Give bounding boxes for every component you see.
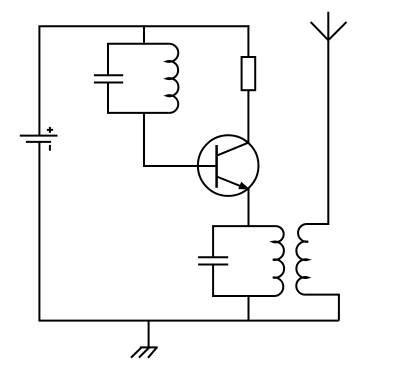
wire top rail to tank1 [143, 25, 145, 45]
wire top rail and left rail upper [39, 26, 249, 135]
capacitor C1 [94, 75, 123, 82]
capacitor C2 [198, 257, 228, 264]
wire tank1 top-left [108, 44, 169, 76]
wire antenna feed [306, 12, 328, 224]
wire top rail to resistor [247, 25, 249, 57]
wire tank2 to bottom rail [248, 296, 250, 321]
transistor Q1 [198, 135, 259, 196]
wire tank2 bottom-left [213, 265, 275, 297]
ground [131, 321, 158, 358]
wire emitter to tank2 [248, 188, 250, 227]
inductor L3 secondary [296, 224, 308, 295]
battery B1 [20, 127, 58, 151]
wire tank2 top-left [213, 226, 275, 257]
resistor R1 [242, 57, 256, 90]
inductor L2 primary [273, 226, 284, 296]
wire tank1 bottom-left [108, 83, 169, 113]
wire left rail lower and bottom rail [39, 142, 339, 321]
wire secondary to bottom rail [306, 295, 339, 321]
wire tank1 to transistor base [144, 113, 215, 166]
inductor L1 [167, 44, 179, 113]
antenna [311, 22, 347, 40]
wire resistor to collector [247, 90, 249, 143]
